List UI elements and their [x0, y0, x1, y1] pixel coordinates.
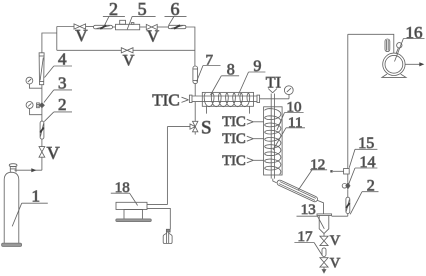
- svg-text:V: V: [330, 255, 341, 271]
- svg-text:11: 11: [288, 115, 302, 131]
- wire right main line: [347, 34, 349, 216]
- label 5: [127, 0, 155, 29]
- reservoir bottle: [163, 229, 172, 243]
- label 10: [277, 100, 304, 131]
- label 12: [298, 157, 327, 191]
- pump 18: [116, 202, 152, 221]
- wire junction riser: [56, 27, 58, 51]
- label 15: [349, 135, 377, 168]
- bleed valve 15: [330, 169, 349, 175]
- wire: [113, 26, 116, 28]
- wire column bottom: [273, 179, 277, 183]
- furnace shell 8: [202, 92, 253, 106]
- label 11: [273, 115, 305, 150]
- label 3: [44, 74, 72, 103]
- svg-text:9: 9: [253, 58, 261, 75]
- rotameter 4: [39, 53, 44, 85]
- svg-text:TIC: TIC: [222, 114, 245, 130]
- label 7: [197, 52, 221, 81]
- label 9: [238, 58, 265, 96]
- mass flow controller 5: [116, 20, 140, 30]
- wire valve to filter 2: [41, 139, 43, 147]
- svg-text:TIC: TIC: [222, 131, 245, 147]
- label 2 (top): [103, 0, 125, 25]
- wire bypass to corner: [133, 49, 195, 51]
- wire: [157, 26, 168, 28]
- filter 2 (right): [346, 197, 350, 213]
- svg-text:TIC: TIC: [152, 91, 179, 110]
- furnace coil 9: [204, 93, 250, 106]
- wire: [86, 26, 94, 28]
- label 8: [211, 62, 240, 95]
- label 16: [395, 23, 425, 62]
- bypass line (second row): [57, 49, 122, 51]
- valve S (three-way): [190, 121, 198, 134]
- muffler: [385, 39, 390, 52]
- wire S to pump riser: [167, 126, 190, 128]
- filter 6: [168, 25, 186, 29]
- column shell 10: [264, 107, 283, 175]
- filter 2 (top horizontal): [94, 25, 113, 29]
- valve V (separator drain): [320, 236, 328, 245]
- label TIC row3: [222, 153, 263, 169]
- svg-text:V: V: [147, 26, 160, 45]
- sample tube 17: [322, 248, 326, 257]
- filter 2 (left vertical): [40, 121, 44, 139]
- wire top right corner: [186, 27, 195, 66]
- wire cylinder outlet: [15, 169, 42, 171]
- wire pump outlet: [147, 204, 167, 206]
- wire: [140, 26, 147, 28]
- furnace legs: [206, 106, 208, 113]
- wire filter to regulator: [41, 108, 43, 122]
- wire rotameter to junction: [42, 33, 57, 53]
- svg-text:12: 12: [310, 157, 325, 173]
- label 2 (right): [350, 178, 378, 215]
- svg-text:V: V: [47, 143, 60, 163]
- exhaust arrow: [405, 62, 424, 66]
- condenser 12: [276, 179, 318, 202]
- wire top to vacuum pump: [348, 34, 394, 53]
- label 13: [297, 202, 325, 229]
- label TIC row1: [222, 114, 263, 130]
- svg-text:V: V: [75, 26, 88, 45]
- drain outlet: [322, 267, 326, 273]
- pressure regulator 3: [37, 103, 45, 108]
- wire pump riser: [166, 127, 168, 205]
- svg-text:TIC: TIC: [222, 153, 245, 169]
- rotameter 7: [193, 66, 198, 84]
- valve V (bypass): [121, 48, 133, 53]
- label TI: [266, 74, 281, 92]
- wire regulator to rotameter: [41, 85, 43, 103]
- gas cylinder 1: [2, 164, 22, 247]
- wire to furnace tube: [194, 84, 196, 96]
- column coil 11: [265, 109, 281, 175]
- wire tube to S valve: [194, 102, 196, 122]
- wire separator to right line: [332, 215, 348, 217]
- separator 13: [317, 214, 332, 236]
- svg-text:10: 10: [287, 100, 302, 116]
- svg-text:2: 2: [58, 95, 67, 114]
- svg-text:V: V: [330, 233, 341, 249]
- valve 14: [342, 183, 350, 189]
- furnace tube: [189, 95, 259, 102]
- valve V (cylinder outlet): [39, 147, 45, 158]
- label 14: [349, 154, 378, 184]
- label 1: [12, 187, 48, 227]
- label 6: [165, 0, 187, 25]
- pressure gauge (upper): [26, 77, 42, 88]
- wire top line to valve: [57, 26, 74, 28]
- wire condenser to separator: [317, 200, 323, 214]
- valve V (top line 2nd): [146, 24, 157, 29]
- svg-text:V: V: [123, 52, 135, 69]
- svg-text:S: S: [201, 118, 212, 139]
- flow arrow: [31, 168, 36, 172]
- wire pump inlet: [147, 208, 170, 229]
- gauge (pump): [396, 43, 402, 54]
- label 4: [45, 50, 73, 78]
- wire to valve: [41, 157, 43, 170]
- label TIC row2: [222, 131, 263, 147]
- label 18: [111, 180, 138, 206]
- pressure gauge (lower): [26, 102, 42, 115]
- svg-text:16: 16: [406, 23, 423, 42]
- valve V (sample bottom): [320, 258, 328, 267]
- column inner tube: [271, 94, 274, 179]
- valve V (top line 1st): [74, 24, 86, 29]
- pressure gauge (column top): [284, 86, 293, 99]
- vacuum pump 16: [382, 53, 406, 77]
- svg-text:13: 13: [301, 202, 316, 218]
- label 17: [294, 229, 322, 256]
- label TIC (furnace): [152, 91, 188, 110]
- label 2 (left): [44, 95, 72, 122]
- wire tube to column: [260, 98, 289, 100]
